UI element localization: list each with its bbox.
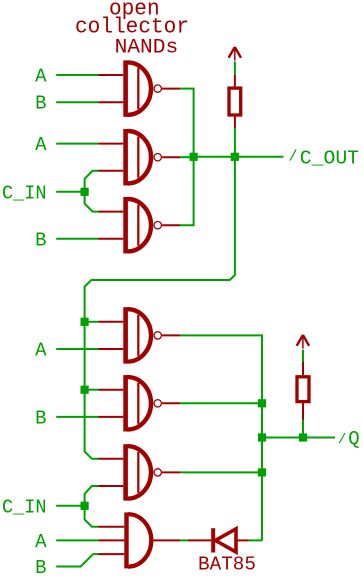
open-collector NAND gate G6 bbox=[99, 444, 181, 500]
junction bus to G4 input 1 bbox=[81, 318, 89, 326]
wire net A to G4 input 2 bbox=[56, 348, 98, 350]
wire VCC arrow to R2 pin 1 bbox=[302, 350, 304, 362]
wire G7 output to diode D1 bbox=[180, 539, 188, 541]
svg-text:/: / bbox=[289, 149, 298, 166]
wire G6 output to junction bbox=[180, 471, 262, 473]
wire diode D1 to /Q vertical bbox=[249, 539, 263, 541]
power arrow VCC (pull-up R2) bbox=[297, 335, 309, 349]
svg-text:NANDs: NANDs bbox=[115, 36, 179, 59]
junction R2 / Q node bbox=[299, 433, 307, 441]
wire C_IN junction up to G2 input 2 bbox=[85, 171, 99, 192]
resistor R2 pin 2 bbox=[302, 403, 304, 420]
wire G5 output to junction bbox=[180, 402, 262, 404]
wire /C_OUT node to label bbox=[194, 156, 284, 158]
junction R1 / C_OUT node bbox=[231, 153, 239, 161]
svg-text:/: / bbox=[338, 432, 346, 448]
wire C_IN to junction bbox=[56, 191, 84, 193]
wire net A to G1 input 1 bbox=[56, 74, 98, 76]
wire C_IN junction down to G3 input 1 bbox=[85, 192, 99, 212]
open-collector NAND gate G1 bbox=[99, 60, 181, 116]
wire G4 output to /Q vertical bbox=[180, 335, 262, 540]
svg-text:B: B bbox=[35, 93, 46, 115]
svg-text:A: A bbox=[35, 531, 47, 553]
power arrow VCC (pull-up R1) bbox=[229, 47, 241, 61]
wire feedback /C_OUT down and left to lower bus bbox=[85, 157, 235, 459]
wire /Q row bbox=[262, 437, 335, 439]
wire R2 pin 2 to /Q node bbox=[302, 420, 304, 438]
junction C_IN node bbox=[81, 188, 89, 196]
wire bus junction to G5 input 1 bbox=[85, 389, 99, 391]
wire net A to G2 input 1 bbox=[56, 143, 98, 145]
title text "open collector NANDs" bbox=[75, 0, 189, 59]
open-collector NAND gate G2 bbox=[99, 129, 181, 185]
wire net A to G7 input 2 bbox=[56, 539, 98, 541]
resistor R1 pin 1 bbox=[234, 75, 236, 88]
junction bus to G5 input 1 bbox=[81, 386, 89, 394]
wire bus junction to G4 input 1 bbox=[85, 321, 99, 323]
svg-text:C_IN: C_IN bbox=[2, 496, 47, 518]
svg-text:A: A bbox=[35, 134, 47, 156]
diode D1 triangle (anode) bbox=[215, 529, 236, 552]
svg-text:C_OUT: C_OUT bbox=[300, 147, 359, 169]
resistor R1 body bbox=[229, 88, 241, 115]
svg-text:A: A bbox=[35, 340, 47, 362]
svg-text:B: B bbox=[35, 407, 46, 429]
wire net B to G5 input 2 bbox=[56, 416, 98, 418]
wire net B to G7 input 3 bbox=[56, 554, 98, 566]
resistor R2 body bbox=[297, 377, 309, 402]
open-collector NAND gate G3 bbox=[99, 197, 181, 253]
wire G1 output to node /C_OUT vertical bbox=[180, 89, 194, 157]
wire C_IN junction down to G7 input 1 bbox=[85, 506, 99, 527]
wire net B to G3 input 2 bbox=[56, 238, 98, 240]
wire G3 output up to node /C_OUT vertical bbox=[180, 157, 194, 225]
wire VCC arrow to R1 pin 1 bbox=[234, 62, 236, 76]
diode D1 cathode bar bbox=[211, 528, 215, 552]
open-collector NAND gate G5 bbox=[99, 375, 181, 431]
resistor R1 pin 2 bbox=[234, 115, 236, 128]
wire C_IN to junction bbox=[56, 505, 84, 507]
svg-text:A: A bbox=[35, 66, 47, 88]
junction C_IN lower node bbox=[81, 502, 89, 510]
open-collector NAND gate G4 bbox=[99, 307, 181, 363]
diode D1 pin 1 (cathode side) bbox=[188, 539, 211, 541]
wire R1 pin 2 to /C_OUT node bbox=[234, 128, 236, 157]
junction G6 output on /Q vertical bbox=[258, 468, 266, 476]
AND gate G7 (3-input, open collector) bbox=[99, 512, 181, 568]
svg-text:C_IN: C_IN bbox=[2, 182, 47, 204]
svg-text:B: B bbox=[35, 557, 46, 579]
junction G5 output on /Q vertical bbox=[258, 399, 266, 407]
wire C_IN junction up to G6 input 2 bbox=[85, 486, 99, 506]
junction /Q on vertical bbox=[258, 433, 266, 441]
diode D1 pin 2 (anode side) bbox=[236, 539, 249, 541]
svg-text:BAT85: BAT85 bbox=[198, 554, 256, 576]
wire net B to G1 input 2 bbox=[56, 101, 98, 103]
resistor R2 pin 1 bbox=[302, 362, 304, 376]
svg-text:B: B bbox=[35, 229, 46, 251]
junction G2 output node bbox=[190, 153, 198, 161]
wire G2 output to junction bbox=[180, 156, 194, 158]
svg-text:Q: Q bbox=[348, 428, 359, 450]
